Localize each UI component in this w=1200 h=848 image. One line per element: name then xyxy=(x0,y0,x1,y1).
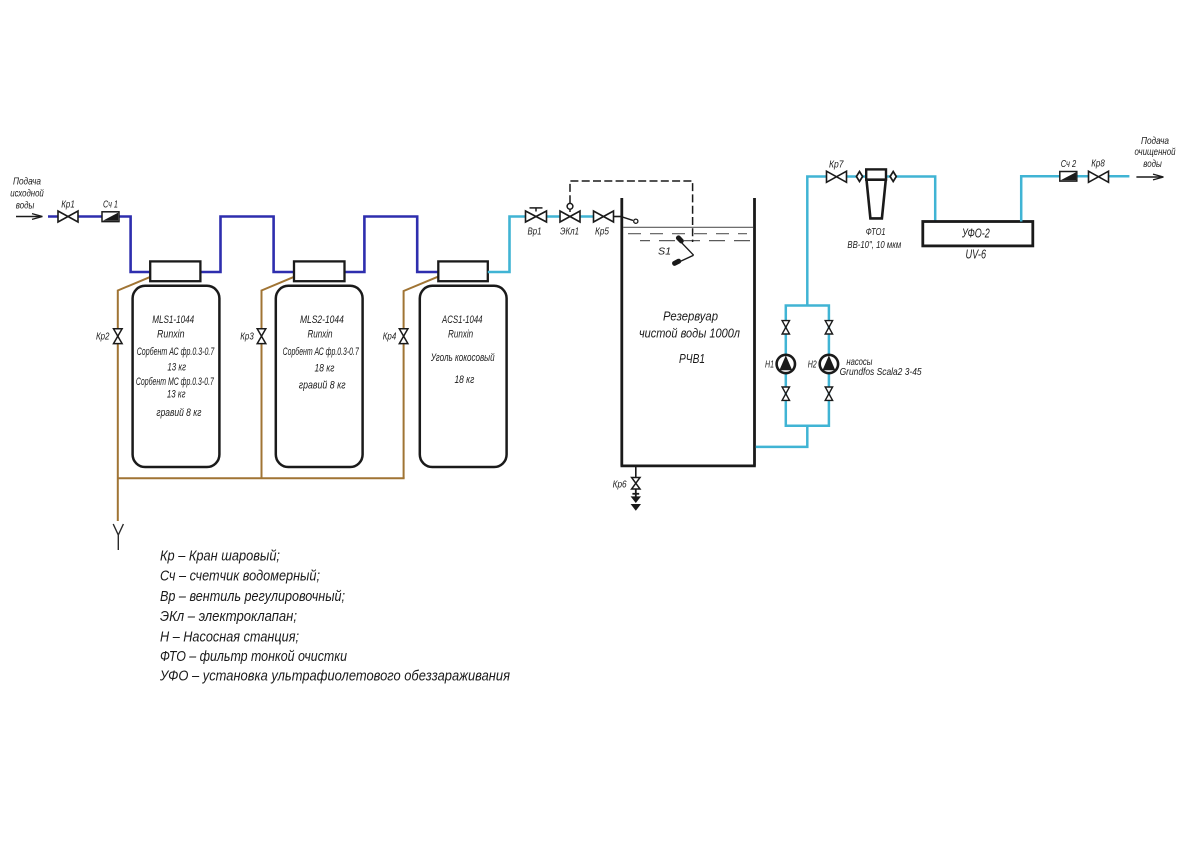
svg-text:Сч 2: Сч 2 xyxy=(1061,158,1077,170)
reservoir water level lines xyxy=(623,227,753,240)
label: Подача исходной воды xyxy=(10,176,44,212)
tank MLS1-1044 labels xyxy=(136,314,215,419)
tank MLS2-1044 cap xyxy=(294,261,345,281)
wire: brown drain tank1 xyxy=(118,276,153,521)
valve Кр7 xyxy=(827,159,847,183)
tank MLS2-1044 labels xyxy=(283,314,360,392)
wire: treated water outlet arrow xyxy=(1136,174,1163,180)
svg-text:Кр7: Кр7 xyxy=(829,159,844,171)
fitting diamond filter inlet xyxy=(856,172,862,182)
tank MLS1-1044 body xyxy=(133,286,220,467)
valve Кр2 xyxy=(96,329,122,344)
svg-text:Кр5: Кр5 xyxy=(595,226,609,238)
svg-text:ФТО1: ФТО1 xyxy=(866,226,886,238)
svg-text:Резервуар: Резервуар xyxy=(663,310,718,324)
svg-text:MLS2-1044: MLS2-1044 xyxy=(300,314,344,326)
pump inlet valve H2 xyxy=(825,321,832,334)
svg-text:Сорбент МС фр.0.3-0.7: Сорбент МС фр.0.3-0.7 xyxy=(136,376,215,388)
svg-text:Кр – Кран шаровый;: Кр – Кран шаровый; xyxy=(160,547,280,564)
wire: cyan reservoir to pump manifold xyxy=(756,426,808,447)
tank MLS2-1044 body xyxy=(276,286,363,467)
svg-text:РЧВ1: РЧВ1 xyxy=(679,352,705,366)
svg-text:воды: воды xyxy=(1143,158,1162,170)
svg-text:13 кг: 13 кг xyxy=(167,389,186,401)
svg-text:13 кг: 13 кг xyxy=(167,362,186,374)
label: Подача очищенной воды xyxy=(1135,135,1176,170)
fitting diamond filter outlet xyxy=(890,172,896,182)
svg-text:Кр4: Кр4 xyxy=(383,331,397,343)
tank ACS1-1044 labels xyxy=(430,314,494,386)
svg-text:Сч – счетчик водомерный;: Сч – счетчик водомерный; xyxy=(160,568,320,585)
filter ФТО1 xyxy=(847,169,901,250)
svg-text:Уголь кокосовый: Уголь кокосовый xyxy=(430,352,494,364)
wire: raw water inlet arrow xyxy=(16,214,43,220)
level switch S1 xyxy=(658,234,694,266)
svg-text:чистой воды 1000л: чистой воды 1000л xyxy=(639,327,740,341)
svg-text:S1: S1 xyxy=(658,246,671,258)
svg-text:ЭКл1: ЭКл1 xyxy=(560,226,579,238)
UV unit УФО-2 xyxy=(923,222,1033,262)
svg-text:Сорбент АС фр.0.3-0.7: Сорбент АС фр.0.3-0.7 xyxy=(283,346,360,358)
svg-text:ЭКл – электроклапан;: ЭКл – электроклапан; xyxy=(160,608,297,625)
svg-text:очищенной: очищенной xyxy=(1135,146,1176,158)
svg-text:Н – Насосная станция;: Н – Насосная станция; xyxy=(160,628,299,645)
wire: blue pipe inlet to tank1 xyxy=(48,217,438,273)
pump inlet valve H1 xyxy=(782,321,789,334)
svg-text:Сч 1: Сч 1 xyxy=(103,199,118,211)
valve Кр3 xyxy=(240,329,266,344)
wire: inlet stub into reservoir with float lever xyxy=(614,217,638,224)
valve Кр5 xyxy=(594,211,614,238)
drain arrow below Кр6 xyxy=(631,489,641,511)
svg-text:воды: воды xyxy=(16,200,35,212)
pump H1 xyxy=(765,355,795,373)
wire: cyan riser to Кр7 xyxy=(807,177,935,306)
pump outlet valve H1 xyxy=(782,387,789,400)
valve Вр1 xyxy=(526,208,547,238)
svg-text:Вр – вентиль регулировочный;: Вр – вентиль регулировочный; xyxy=(160,588,345,605)
svg-text:Grundfos Scala2 3-45: Grundfos Scala2 3-45 xyxy=(840,366,922,378)
svg-text:Н2: Н2 xyxy=(808,358,817,370)
wire: brown drain manifold xyxy=(118,477,405,479)
svg-text:Runxin: Runxin xyxy=(157,328,185,340)
svg-text:BB-10", 10 мкм: BB-10", 10 мкм xyxy=(847,239,901,251)
wire: dashed control line ЭКл1 to S1 xyxy=(570,181,693,242)
meter Сч1 xyxy=(102,199,119,222)
svg-text:Подача: Подача xyxy=(13,176,41,188)
svg-text:Сорбент АС фр.0.3-0.7: Сорбент АС фр.0.3-0.7 xyxy=(137,346,215,358)
svg-text:УФО – установка ультрафиолетов: УФО – установка ультрафиолетового обезза… xyxy=(159,668,510,685)
valve Кр8 xyxy=(1089,158,1109,183)
svg-text:УФО-2: УФО-2 xyxy=(961,227,990,241)
svg-text:ФТО – фильтр тонкой очистки: ФТО – фильтр тонкой очистки xyxy=(160,648,348,665)
svg-text:Кр1: Кр1 xyxy=(61,199,75,211)
wire: cyan pump loop xyxy=(786,306,829,426)
meter Сч2 xyxy=(1060,158,1077,181)
legend text xyxy=(159,547,510,684)
svg-text:ACS1-1044: ACS1-1044 xyxy=(441,314,482,326)
pump outlet valve H2 xyxy=(825,387,832,400)
svg-text:18 кг: 18 кг xyxy=(315,363,335,375)
valve Кр4 xyxy=(383,329,408,344)
svg-text:Вр1: Вр1 xyxy=(528,226,542,238)
wire: cyan pipe tank3 to reservoir xyxy=(488,217,594,273)
reservoir labels xyxy=(639,310,740,366)
svg-text:Runxin: Runxin xyxy=(448,328,473,340)
label: насосы Grundfos Scala2 3-45 xyxy=(840,356,922,378)
svg-text:Кр8: Кр8 xyxy=(1091,158,1105,170)
svg-text:Н1: Н1 xyxy=(765,358,774,370)
svg-text:MLS1-1044: MLS1-1044 xyxy=(152,314,194,326)
svg-text:гравий 8 кг: гравий 8 кг xyxy=(156,407,201,419)
tank ACS1-1044 body xyxy=(420,286,507,467)
wire: brown drain tank3 xyxy=(404,276,439,478)
svg-text:18 кг: 18 кг xyxy=(454,374,474,386)
valve Кр6 drain xyxy=(613,466,640,491)
tank ACS1-1044 cap xyxy=(438,261,488,281)
svg-text:UV-6: UV-6 xyxy=(966,247,987,261)
valve ЭКл1 (solenoid) xyxy=(560,203,580,237)
wire: brown drain tank2 xyxy=(262,276,297,479)
svg-text:гравий 8 кг: гравий 8 кг xyxy=(299,380,346,392)
reservoir РЧВ1 walls xyxy=(621,198,756,466)
svg-text:Кр2: Кр2 xyxy=(96,331,110,343)
svg-text:Кр3: Кр3 xyxy=(240,331,254,343)
valve Кр1 xyxy=(58,199,78,223)
svg-text:Кр6: Кр6 xyxy=(613,479,627,491)
drain outlet Y symbol xyxy=(113,524,123,550)
tank MLS1-1044 cap xyxy=(150,261,200,281)
pump H2 xyxy=(808,355,838,373)
wire: cyan UV outlet to Сч2 xyxy=(1021,176,1129,221)
svg-text:Runxin: Runxin xyxy=(307,328,332,340)
svg-text:исходной: исходной xyxy=(10,188,44,200)
